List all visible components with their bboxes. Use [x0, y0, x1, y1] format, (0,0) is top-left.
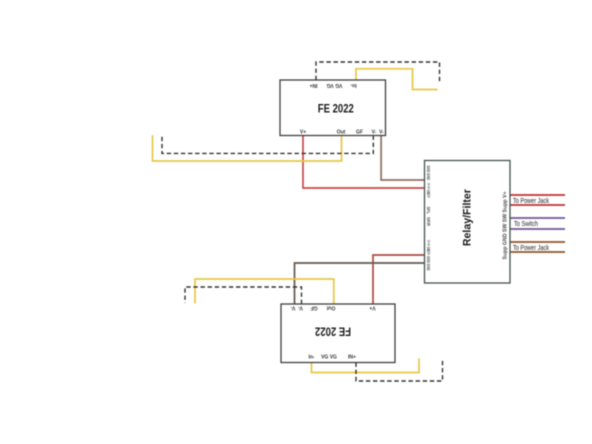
svg-text:GF: GF [356, 130, 363, 136]
svg-text:To Power Jack: To Power Jack [513, 245, 549, 252]
module U3 FE 2022 (bottom converter, rotated 180) [281, 304, 395, 363]
svg-text:VG VG: VG VG [326, 82, 342, 88]
U1 top pin label IN+ (rotated 180) [309, 82, 317, 88]
svg-text:Supp GND SW SW Supp V+: Supp GND SW SW Supp V+ [503, 191, 509, 259]
wire W9 yellow from U3 pin Out to open end [195, 279, 334, 304]
svg-text:To Switch: To Switch [514, 221, 538, 228]
U3 top pin label Out (rotated 180) [326, 304, 335, 310]
svg-text:SP.R: SP.R [426, 217, 431, 227]
wire W8 dark brown from U2 left pin GND to U3 pin V- [295, 263, 425, 304]
label U2 title Relay/Filter (rotated) [462, 188, 474, 246]
wire W10 dashed from U3 pin V- to open end [185, 287, 302, 304]
U3 top pin label V+ (rotated 180) [369, 304, 375, 310]
wire W17 brown from U2 pin Supp GND to power jack [510, 241, 565, 243]
svg-text:V-: V- [372, 130, 377, 136]
svg-text:V+: V+ [369, 304, 375, 310]
U3 top pin label V- (second, rotated 180) [298, 304, 303, 310]
U1 bottom pin label V- (second) [379, 130, 384, 136]
U1 top pin label VG VG (rotated 180) [326, 82, 342, 88]
wire W14 red from U2 pin V+ to power jack [510, 204, 565, 206]
U2 left pin label GND GND (top) [426, 166, 431, 181]
U2 left pin label V+ V+ GND/V+ [426, 183, 431, 198]
svg-text:V+ V+ GND/V+: V+ V+ GND/V+ [426, 183, 431, 198]
wire W2 yellow from U1 pin In- to open end [356, 69, 438, 90]
U1 bottom pin label GF [356, 130, 363, 136]
U3 top pin label V- (first, rotated 180) [290, 304, 295, 310]
wire W5 dashed from U1 pin V- to open end [162, 136, 373, 154]
U3 top pin label GF (rotated 180) [311, 304, 318, 310]
wire W15 purple from U2 pin SW to switch [510, 217, 565, 219]
label To Power Jack (bottom) [513, 245, 549, 252]
U1 top pin label In- (rotated 180) [350, 82, 356, 88]
wire W4 yellow from U1 pin Out to open end [153, 135, 342, 161]
svg-text:SP.L: SP.L [426, 207, 431, 215]
U1 bottom pin label V- (first) [372, 130, 377, 136]
U3 bottom pin label VG VG [321, 355, 337, 361]
wire W11 yellow from U3 pin In- to open end [312, 359, 420, 373]
wire W6 taupe from U1 pin V- to U2 left pin GND [381, 136, 424, 181]
wire W18 brown from U2 pin GND to power jack [510, 251, 565, 253]
wire W13 red from U2 pin Supp V+ to power jack [510, 194, 565, 196]
svg-text:In-: In- [350, 82, 356, 88]
svg-text:Out: Out [326, 304, 335, 310]
wire W16 purple from U2 pin SW to switch [510, 228, 565, 230]
svg-text:FE 2022: FE 2022 [315, 325, 351, 339]
wire W1 dashed from U1 pin IN+ to open end [316, 62, 440, 83]
svg-text:In-: In- [308, 355, 314, 361]
wire W12 dashed from U3 pin IN+ to open end [356, 361, 443, 382]
module U2 Relay/Filter [425, 161, 511, 284]
module U1 FE 2022 (top converter) [280, 80, 386, 136]
svg-text:IN+: IN+ [309, 82, 317, 88]
svg-text:VG VG: VG VG [321, 355, 337, 361]
U2 left pin label GND GND (bottom) [426, 256, 431, 271]
U2 left pin label SP.R [426, 217, 431, 227]
svg-text:V-: V- [379, 130, 384, 136]
wire W3 red from U1 pin V+ to U2 left pin V+ [303, 136, 425, 189]
label U1 title FE 2022 [318, 101, 354, 115]
svg-text:Relay/Filter: Relay/Filter [462, 188, 474, 246]
svg-text:GF: GF [311, 304, 318, 310]
svg-text:V-: V- [298, 304, 303, 310]
svg-text:GND GND: GND GND [426, 256, 431, 271]
U2 left pin label V+ V+ GND/V+ (lower) [426, 240, 431, 255]
svg-text:To Power Jack: To Power Jack [513, 198, 549, 205]
wire W7 maroon from U2 left pin V+ to U3 pin V+ [373, 255, 425, 304]
U2 right pin labels Supp GND SW SW Supp V+ (rotated) [503, 191, 509, 259]
label To Power Jack (top) [513, 198, 549, 205]
U1 bottom pin label Out [337, 130, 346, 136]
svg-text:GND GND: GND GND [426, 166, 431, 181]
svg-text:V+: V+ [300, 130, 306, 136]
U3 bottom pin label In- [308, 355, 314, 361]
label U3 title FE 2022 (rotated 180) [315, 325, 351, 339]
svg-text:V+ V+ GND/V+: V+ V+ GND/V+ [426, 240, 431, 255]
svg-text:IN+: IN+ [348, 355, 356, 361]
U3 bottom pin label IN+ [348, 355, 356, 361]
svg-text:V-: V- [290, 304, 295, 310]
label To Switch [514, 221, 538, 228]
U2 left pin label SP.L [426, 207, 431, 215]
svg-text:Out: Out [337, 130, 346, 136]
U1 bottom pin label V+ [300, 130, 306, 136]
svg-text:FE 2022: FE 2022 [318, 101, 354, 115]
